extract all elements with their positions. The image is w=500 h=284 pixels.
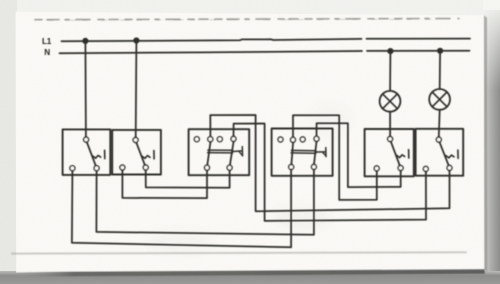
- svg-text:N: N: [44, 48, 50, 57]
- svg-text:L1: L1: [42, 37, 52, 46]
